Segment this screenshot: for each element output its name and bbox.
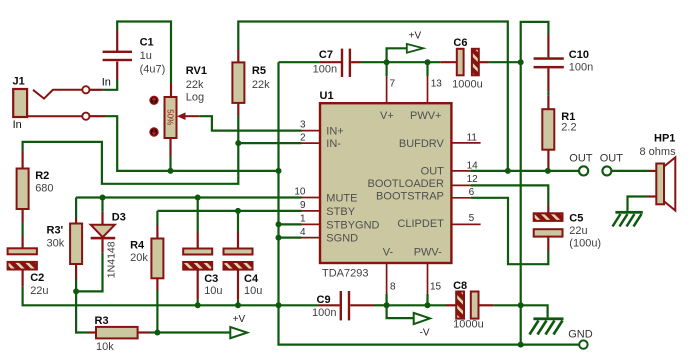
svg-text:20k: 20k	[130, 252, 148, 264]
svg-text:8: 8	[390, 282, 396, 293]
ground (speaker)	[613, 211, 643, 227]
lead R2 bottom	[22, 209, 24, 222]
wire R3 to junction	[150, 331, 157, 333]
lead R4 top	[156, 225, 158, 239]
wire OUT row	[471, 170, 579, 172]
wire pin 7	[386, 62, 388, 76]
terminal In (bottom)	[82, 113, 89, 120]
capacitor C6 (electrolytic)	[457, 49, 479, 76]
wire pin 8	[386, 294, 388, 305]
wire In to ground bus	[105, 116, 279, 171]
lead C9 left	[319, 304, 340, 306]
svg-text:1: 1	[300, 214, 306, 225]
pin 4 stub	[302, 237, 321, 239]
svg-text:4: 4	[300, 227, 306, 238]
junction C4 / ground rail	[235, 302, 241, 308]
lead C8 right	[479, 304, 494, 306]
lead C2 bottom	[22, 270, 24, 287]
svg-text:C2: C2	[30, 272, 44, 284]
svg-text:7: 7	[390, 79, 396, 90]
lead R4 bottom	[156, 278, 158, 290]
lead C10 bottom	[547, 68, 549, 91]
wire HP1 to ground	[628, 197, 648, 211]
power -V	[414, 313, 430, 324]
lead C4 top	[237, 232, 239, 249]
svg-text:2.2: 2.2	[561, 122, 576, 134]
resistor R5	[232, 62, 244, 103]
junction C3 top	[195, 195, 201, 201]
lead C7 right	[351, 61, 360, 63]
wire to +V symbol	[387, 48, 407, 62]
wire C8 to vertical	[494, 304, 521, 306]
wire bus to C7	[279, 61, 320, 63]
svg-text:C8: C8	[453, 280, 467, 292]
svg-text:BUFDRV: BUFDRV	[399, 138, 445, 150]
svg-text:(4u7): (4u7)	[140, 63, 166, 75]
resistor R4	[151, 239, 163, 279]
wire -V rail	[387, 304, 446, 306]
svg-text:IN+: IN+	[326, 125, 343, 137]
wire ground rail (left)	[23, 286, 279, 305]
junction bus / ground rail	[276, 302, 282, 308]
svg-text:U1: U1	[320, 90, 334, 102]
lead R3 left	[88, 331, 96, 333]
svg-text:R3: R3	[95, 315, 109, 327]
junction feedback / OUT	[505, 168, 511, 174]
pin 15 stub	[427, 263, 429, 294]
resistor R2	[17, 169, 29, 210]
svg-text:C5: C5	[569, 212, 583, 224]
svg-text:PWV+: PWV+	[410, 110, 441, 122]
wire STBYGND stub	[279, 223, 302, 225]
svg-text:MUTE: MUTE	[326, 192, 357, 204]
lead C10 top	[547, 34, 549, 57]
lead R1 top	[547, 96, 549, 110]
svg-text:STBYGND: STBYGND	[326, 219, 379, 231]
potentiometer RV1	[165, 97, 177, 138]
wire R4 bottom to junction	[156, 290, 158, 333]
svg-text:+V: +V	[233, 314, 246, 325]
pin 3 stub	[302, 130, 321, 132]
junction R3'/D3/R3	[73, 288, 79, 294]
svg-text:680: 680	[35, 183, 53, 195]
svg-text:100n: 100n	[569, 62, 593, 74]
svg-text:RV1: RV1	[186, 65, 207, 77]
svg-text:V-: V-	[383, 247, 394, 259]
svg-text:D3: D3	[112, 211, 126, 223]
svg-text:50%: 50%	[166, 109, 175, 125]
svg-text:PWV-: PWV-	[414, 247, 442, 259]
svg-text:OUT: OUT	[421, 165, 445, 177]
lead C2 top	[22, 236, 24, 248]
resistor R3'	[70, 224, 82, 265]
wire rail to C9	[279, 304, 319, 306]
adjust button down RV1	[150, 128, 158, 136]
svg-text:100n: 100n	[313, 63, 337, 75]
pin 2 stub	[302, 142, 321, 144]
svg-text:IN-: IN-	[326, 138, 341, 150]
junction IN- node	[235, 140, 241, 146]
wire R5 top to OUT (feedback)	[238, 22, 508, 171]
svg-text:BOOTLOADER: BOOTLOADER	[367, 178, 443, 190]
wire IN- to R2	[23, 142, 239, 184]
junction RV1 bottom	[168, 168, 174, 174]
pin 5 stub	[451, 223, 480, 225]
junction vertical / bottom rail	[518, 342, 524, 348]
svg-text:C7: C7	[319, 49, 333, 61]
svg-text:In: In	[102, 76, 111, 88]
junction C8 / vertical	[518, 302, 524, 308]
svg-text:22u: 22u	[569, 225, 587, 237]
svg-text:2: 2	[300, 133, 306, 144]
wire C3 to rail	[197, 300, 199, 306]
pin 1 stub	[302, 223, 321, 225]
svg-text:C6: C6	[453, 37, 467, 49]
lead C6 left	[440, 61, 457, 63]
svg-text:OUT: OUT	[569, 153, 593, 165]
lead R5 top	[237, 49, 239, 62]
lead D3 cathode	[101, 239, 103, 253]
lead C3 top	[197, 232, 199, 249]
svg-text:J1: J1	[13, 76, 25, 88]
lead C1 bottom	[116, 62, 118, 81]
lead D3 anode	[101, 212, 103, 225]
pin 7 stub	[386, 76, 388, 103]
junction pin 8 / -V rail	[384, 302, 390, 308]
op-amp U1 TDA7293	[320, 103, 451, 263]
svg-text:12: 12	[467, 174, 479, 185]
lead C7 left	[319, 61, 342, 63]
lead RV1 top	[170, 83, 172, 97]
wire R5 bottom to IN- node	[237, 116, 239, 143]
svg-text:15: 15	[430, 282, 442, 293]
capacitor C3 (electrolytic)	[183, 249, 212, 270]
wire RV1 bottom	[169, 156, 171, 171]
svg-text:STBY: STBY	[326, 206, 355, 218]
junction pin 13 / +V	[425, 59, 431, 65]
wire C1 to RV1	[117, 22, 171, 84]
svg-text:10u: 10u	[204, 285, 222, 297]
lead R5 bottom	[237, 103, 239, 116]
lead C5 bottom	[547, 237, 549, 252]
wire to +V (bottom)	[157, 331, 230, 333]
svg-text:22u: 22u	[30, 285, 48, 297]
lead C4 bottom	[237, 270, 239, 300]
svg-text:1u: 1u	[140, 50, 152, 62]
wire C4 top	[237, 211, 239, 232]
junction C4 top	[235, 208, 241, 214]
pin 8 stub	[386, 263, 388, 294]
junction C6/C10/C8 node	[518, 59, 524, 65]
lead R2 top	[22, 151, 24, 169]
lead R3 right	[138, 331, 150, 333]
diode D3	[91, 225, 116, 240]
svg-text:V+: V+	[380, 110, 394, 122]
svg-text:C10: C10	[569, 49, 589, 61]
wire supply ground vertical	[520, 62, 522, 344]
wire IN- row	[238, 142, 301, 144]
svg-text:TDA7293: TDA7293	[322, 267, 368, 279]
svg-text:GND: GND	[568, 328, 593, 340]
wire to -V symbol	[387, 305, 414, 318]
svg-text:In: In	[13, 119, 22, 131]
capacitor C7	[341, 49, 351, 77]
terminal OUT (left)	[579, 166, 588, 175]
terminal GND	[579, 340, 587, 348]
junction C3 / ground rail	[195, 302, 201, 308]
resistor R3 (horizontal)	[96, 327, 138, 339]
wire C4 to rail	[237, 300, 239, 306]
junction pin 7 / +V	[384, 59, 390, 65]
lead C9 right	[350, 304, 374, 306]
svg-text:1000u: 1000u	[452, 79, 483, 91]
svg-text:10u: 10u	[244, 285, 262, 297]
svg-text:BOOTSTRAP: BOOTSTRAP	[376, 191, 444, 203]
wire pin 15	[426, 294, 428, 305]
lead R3' top	[75, 218, 77, 224]
junction pin 1 / bus	[276, 221, 282, 227]
lead C6 right	[479, 61, 489, 63]
terminal In (top)	[82, 86, 89, 93]
lead C1 top	[116, 30, 118, 52]
svg-text:C1: C1	[140, 36, 154, 48]
lead R1 bottom	[547, 150, 549, 171]
capacitor C9	[340, 291, 351, 320]
wire C3 top	[197, 198, 199, 233]
wire In to C1	[103, 80, 117, 90]
connector J1	[13, 89, 82, 117]
svg-text:SGND: SGND	[326, 233, 358, 245]
junction pin 15 / -V rail	[425, 302, 431, 308]
wire OUT to speaker	[612, 170, 649, 172]
svg-text:C9: C9	[317, 294, 331, 306]
svg-text:(100u): (100u)	[569, 238, 601, 250]
wire R2 to C2	[22, 222, 24, 236]
svg-text:R4: R4	[130, 240, 145, 252]
wire R4 to STBY row	[156, 211, 158, 225]
ground (supply)	[530, 317, 564, 334]
svg-text:5: 5	[469, 213, 475, 224]
wire C6 to node	[489, 61, 521, 63]
junction ground bus / input row	[276, 168, 282, 174]
wire C5 to BOOTSTRAP	[471, 198, 549, 264]
pin 10 stub	[302, 197, 321, 199]
terminal OUT (right)	[602, 166, 611, 175]
svg-text:22k: 22k	[186, 79, 204, 91]
svg-text:R3': R3'	[47, 225, 64, 237]
svg-text:CLIPDET: CLIPDET	[397, 218, 444, 230]
wire to ground symbol	[521, 305, 548, 317]
pin 14 stub	[451, 170, 470, 172]
capacitor C10	[534, 57, 564, 68]
svg-text:8 ohms: 8 ohms	[640, 146, 677, 158]
svg-text:3: 3	[300, 120, 306, 131]
lead C5 top	[547, 205, 549, 213]
capacitor C4 (electrolytic)	[224, 249, 253, 270]
lead HP1 top	[649, 170, 656, 172]
capacitor C2 (electrolytic)	[8, 248, 37, 269]
lead HP1 bottom	[647, 195, 656, 197]
lead R3' bottom	[75, 264, 77, 280]
wire MUTE to R3'	[75, 198, 77, 219]
wire STBY row	[157, 210, 301, 212]
svg-text:C3: C3	[204, 273, 218, 285]
pin 12 stub	[451, 184, 470, 186]
svg-text:OUT: OUT	[600, 153, 624, 165]
wire SGND stub	[279, 237, 302, 239]
wire C10 to R1	[547, 92, 549, 96]
svg-text:HP1: HP1	[654, 133, 675, 145]
svg-text:100n: 100n	[312, 307, 336, 319]
svg-text:22k: 22k	[252, 79, 270, 91]
wire +V rail	[361, 61, 441, 63]
lead C3 bottom	[197, 270, 199, 300]
pin 13 stub	[427, 76, 429, 103]
svg-text:1000u: 1000u	[453, 319, 484, 331]
svg-text:9: 9	[300, 200, 306, 211]
wire BOOTLOADER to C5	[471, 185, 549, 205]
svg-text:10k: 10k	[96, 341, 114, 353]
wiper arrow RV1	[177, 112, 199, 120]
wire D3 anode	[101, 198, 103, 212]
svg-text:1N4148: 1N4148	[105, 241, 117, 278]
lead C8 left	[446, 304, 456, 306]
wire to R3	[76, 291, 88, 332]
svg-text:R2: R2	[35, 170, 49, 182]
wire node to C10	[521, 22, 549, 62]
svg-text:30k: 30k	[47, 238, 65, 250]
wire MUTE row	[76, 196, 301, 198]
junction R3/R4	[154, 330, 160, 336]
svg-text:-V: -V	[420, 328, 430, 339]
adjust button up RV1	[150, 96, 158, 104]
power +V (top)	[407, 44, 424, 53]
wire C9 to pin 8	[374, 304, 387, 306]
svg-text:13: 13	[431, 79, 443, 90]
resistor R1	[542, 109, 554, 150]
power +V (bottom)	[230, 327, 247, 338]
wire wiper to IN+	[199, 116, 301, 130]
junction pin 4 / bus	[276, 235, 282, 241]
capacitor C8 (electrolytic)	[456, 292, 478, 319]
svg-text:14: 14	[467, 161, 479, 172]
junction R1 / OUT	[545, 168, 551, 174]
svg-text:R5: R5	[252, 65, 266, 77]
pin 6 stub	[451, 197, 470, 199]
wire (In top lead)	[90, 89, 103, 91]
wire signal ground bus	[279, 62, 580, 344]
pin 9 stub	[302, 210, 321, 212]
capacitor C1	[103, 51, 132, 62]
wire D3 cathode to R3' bottom	[76, 253, 102, 292]
svg-text:+V: +V	[409, 30, 422, 41]
svg-text:Log: Log	[186, 92, 204, 104]
pin 11 stub	[451, 142, 480, 144]
svg-text:10: 10	[294, 187, 306, 198]
capacitor C5 (electrolytic)	[534, 213, 563, 236]
wire pin 13	[426, 62, 428, 76]
svg-text:C4: C4	[244, 273, 259, 285]
wire R3' bottom	[75, 280, 77, 291]
junction D3 anode	[100, 195, 106, 201]
wire (In bottom lead)	[90, 115, 106, 117]
svg-text:11: 11	[467, 133, 478, 144]
svg-text:6: 6	[469, 187, 475, 198]
speaker HP1	[656, 157, 675, 210]
lead RV1 bottom	[169, 138, 171, 156]
